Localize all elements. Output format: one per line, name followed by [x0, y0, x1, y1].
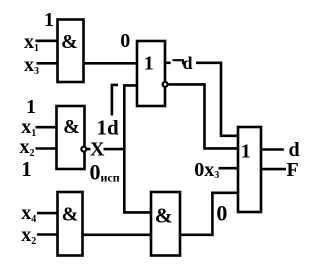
wire output d: [261, 148, 284, 151]
AND gate D2 box: [57, 106, 85, 169]
svg-text:d: d: [289, 139, 300, 161]
not symbol of not-d label: [173, 60, 184, 64]
AND gate D3 box: [58, 192, 83, 256]
OR gate D6 box: [238, 127, 261, 212]
AND gate D1 box: [58, 20, 84, 83]
svg-text:1: 1: [44, 9, 54, 31]
svg-text:&: &: [63, 116, 80, 138]
svg-text:1: 1: [26, 96, 36, 118]
wire not-d to OR2 input 1: [196, 63, 238, 136]
wire AND4 output to OR2 input 4: [180, 193, 238, 235]
wire x2 to AND3: [37, 233, 58, 236]
wire AND1 output to OR1: [84, 62, 138, 65]
wire output F: [261, 168, 286, 171]
svg-text:&: &: [155, 203, 173, 227]
wire node X output of AND2 (segment after bubble): [87, 148, 91, 151]
wire x3 to AND1: [37, 62, 58, 65]
OR gate D4 box: [137, 41, 165, 106]
svg-text:d: d: [183, 53, 193, 73]
wire x3 to OR2 input 3: [219, 167, 239, 170]
wire stub 1d (hook, unconnected): [112, 85, 118, 116]
wire x4 to AND3: [37, 212, 58, 215]
wire x2 to AND2: [36, 147, 57, 150]
wire node X to junction vertical: [104, 148, 126, 151]
wire OR1 output stub to not-d label: [165, 61, 171, 64]
svg-text:0: 0: [216, 201, 227, 226]
AND gate D5 box: [151, 192, 180, 256]
inversion bubble on AND2 output: [81, 147, 86, 152]
svg-text:&: &: [61, 31, 78, 53]
svg-text:1: 1: [241, 141, 251, 163]
svg-text:F: F: [287, 159, 299, 181]
wire x1 to AND1: [36, 39, 58, 42]
wire junction vertical: OR1 input 2 down to AND4 input 1: [124, 85, 151, 212]
svg-text:1d: 1d: [97, 116, 120, 140]
svg-text:X: X: [90, 139, 105, 161]
wire AND3 output to AND4: [83, 234, 152, 237]
inversion bubble on OR1 output: [163, 82, 168, 87]
svg-text:0: 0: [120, 30, 130, 52]
wire x1 to AND2: [36, 126, 57, 129]
svg-text:1: 1: [144, 53, 154, 75]
wire OR1 inverted output (from bubble) to OR2 input 2: [168, 84, 238, 148]
svg-text:1: 1: [21, 157, 32, 181]
svg-text:&: &: [62, 203, 79, 225]
